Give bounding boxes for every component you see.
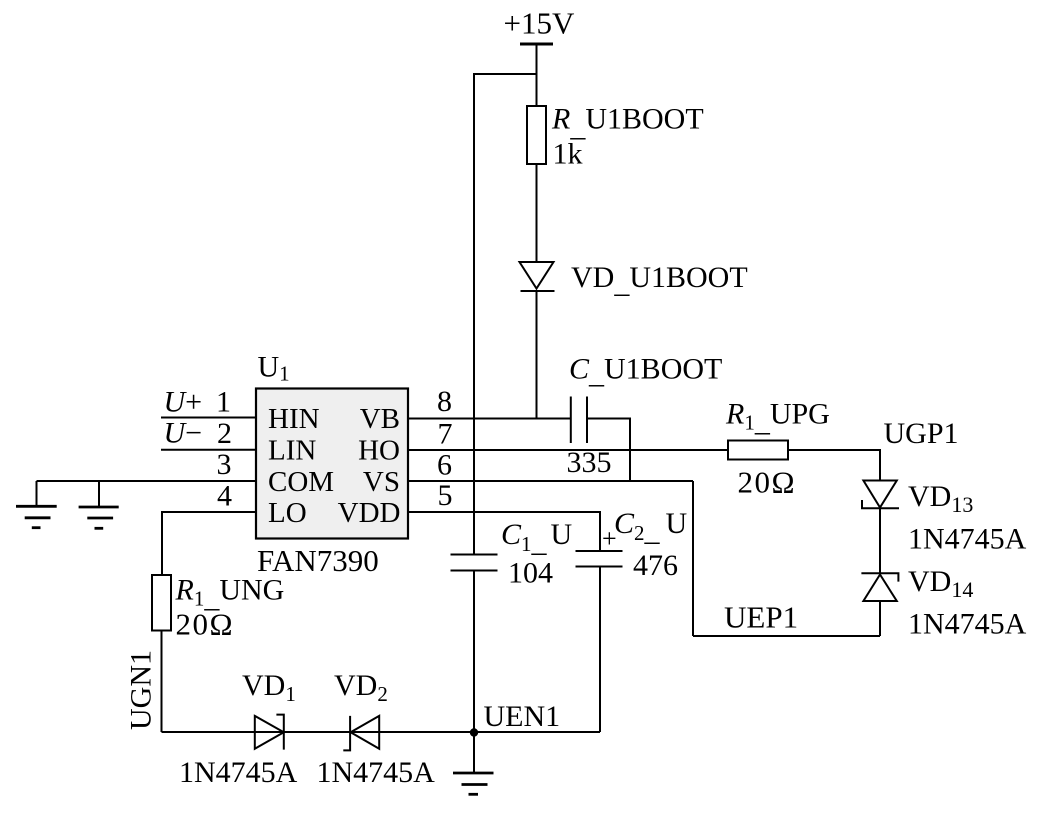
wire VS vertical [692,481,694,636]
svg-text:6: 6 [437,449,452,482]
svg-text:335: 335 [567,446,612,479]
svg-text:UEP1: UEP1 [724,600,798,635]
svg-text:C_U1BOOT: C_U1BOOT [569,353,722,390]
resistor R_1_UNG body [152,575,171,631]
svg-text:U+: U+ [164,386,203,419]
svg-text:104: 104 [508,557,553,590]
svg-text:LO: LO [268,497,307,529]
resistor R_1_UPG body [728,441,788,460]
wire pin5 VDD [408,512,600,551]
wire branch to left rail [474,74,537,555]
capacitor C2_U plates [576,551,623,567]
IC U1 FAN7390 body [256,389,408,539]
svg-text:2: 2 [217,417,232,450]
svg-text:1N4745A: 1N4745A [908,608,1027,641]
ground under UEN1 [453,732,494,794]
svg-text:1k: 1k [553,138,583,171]
svg-text:VB: VB [360,403,400,435]
svg-text:UGP1: UGP1 [884,417,959,450]
svg-text:HO: HO [358,435,400,467]
svg-text:FAN7390: FAN7390 [257,543,379,578]
wire diode to VB node [536,291,538,419]
svg-text:U−: U− [164,417,203,450]
wire pin1 HIN [161,417,256,419]
wire UGN1 down [161,631,163,733]
wire pin3 COM [37,480,257,482]
power +15V rail bar [520,43,553,46]
svg-text:4: 4 [217,480,232,513]
svg-text:COM: COM [268,466,334,498]
ground stub right [98,481,100,507]
zener diode VD1 [255,715,284,750]
svg-text:VDD: VDD [338,497,401,529]
diode VD_U1BOOT [520,262,555,291]
zener diode VD2 [343,716,379,751]
resistor R_U1BOOT body [527,106,546,164]
svg-text:VD_U1BOOT: VD_U1BOOT [571,261,748,299]
svg-text:20Ω: 20Ω [176,607,235,642]
wire pin8 VB [408,418,570,420]
svg-text:LIN: LIN [268,435,316,467]
svg-text:VS: VS [363,466,400,498]
wire C_U1BOOT right plate to VS [587,419,630,482]
wire VD14 down to UEP1 [879,601,881,636]
svg-text:20Ω: 20Ω [738,465,797,500]
wire UEP1 horizontal [693,635,880,637]
svg-text:5: 5 [438,479,453,512]
svg-text:1N4745A: 1N4745A [908,523,1027,556]
capacitor C_U1BOOT plates [571,397,587,444]
svg-text:UEN1: UEN1 [484,700,561,733]
wire resistor to UGP1 corner [788,450,880,481]
ground stub left [36,481,38,506]
wire UEN1 horizontal [162,731,601,733]
svg-text:1: 1 [216,386,231,419]
svg-text:7: 7 [438,418,453,451]
svg-text:3: 3 [217,448,232,481]
zener diode VD13 [862,481,899,509]
svg-text:1N4745A: 1N4745A [179,756,298,789]
wire C1 bottom to UEN1 node [473,571,475,733]
capacitor C1_U plates [451,555,498,571]
svg-text:HIN: HIN [268,403,320,435]
wire C2 bottom to UEN1 [599,567,601,733]
svg-text:476: 476 [633,549,678,582]
wire +15V stem [536,44,538,106]
svg-text:UGN1: UGN1 [125,650,158,730]
svg-text:1N4745A: 1N4745A [317,756,436,789]
wire pin4 LO [162,512,256,575]
wire resistor to diode [536,164,538,262]
wire pin2 LIN [161,449,256,451]
node UEN1 junction dot [470,728,478,736]
svg-text:+15V: +15V [504,6,575,41]
ground symbol 1 [16,506,57,527]
wire pin6 VS [408,480,693,482]
wire VD13 to VD14 [879,508,881,573]
wire pin7 HO to resistor [408,449,728,451]
svg-text:8: 8 [437,385,452,418]
zener diode VD14 [861,573,898,601]
ground symbol 2 [79,507,119,528]
